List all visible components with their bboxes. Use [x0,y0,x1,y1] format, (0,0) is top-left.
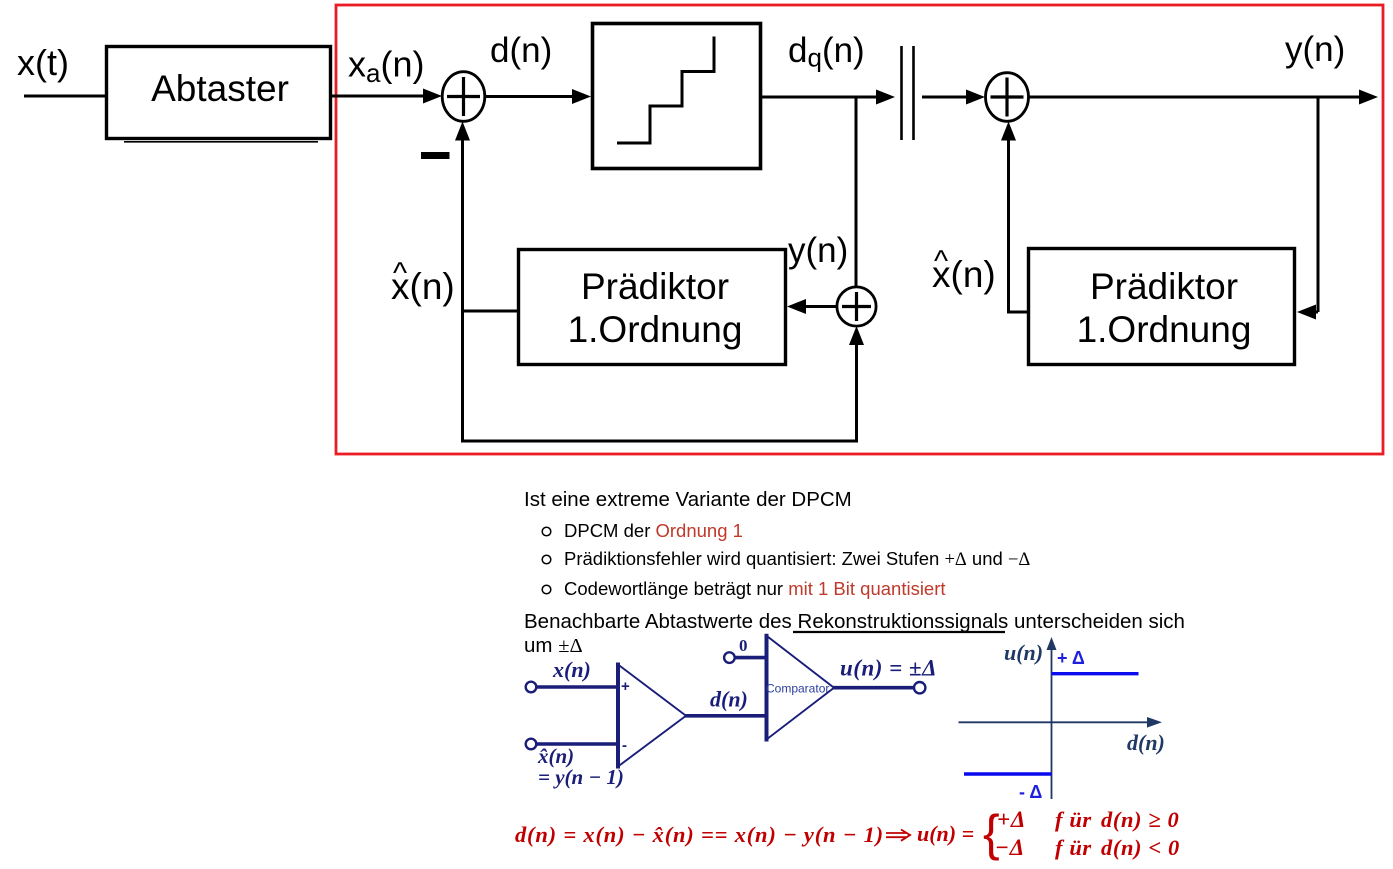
svg-text:Codewortlänge beträgt nur mit: Codewortlänge beträgt nur mit 1 Bit quan… [564,578,946,599]
svg-text:Prädiktor: Prädiktor [581,266,729,307]
graph axis label d(n) [1127,730,1165,755]
svg-text:Ist eine extreme Variante der: Ist eine extreme Variante der DPCM [524,488,852,511]
svg-text:Prädiktionsfehler wird quantis: Prädiktionsfehler wird quantisiert: Zwei… [564,548,1030,570]
wire P2 output to S2 [1001,122,1027,313]
svg-text:d(n): d(n) [1127,730,1165,755]
svg-text:um ±Δ: um ±Δ [524,634,583,657]
node x(n) [552,657,591,682]
graph label -Delta [1019,782,1042,802]
svg-text:d(n): d(n) [490,31,552,70]
svg-text:d(n) ≥ 0: d(n) ≥ 0 [1101,807,1179,832]
svg-text:0: 0 [739,636,748,655]
formula case 2 condition [1055,835,1092,860]
comparator U2 [766,634,834,742]
minus label at S1 [421,152,450,159]
wire zero input [735,656,767,660]
svg-text:y(n): y(n) [788,231,848,270]
block Abtaster (sampler) [107,47,331,142]
formula u(n) equals [917,821,974,846]
formula case 2 condition rhs [1101,835,1180,860]
wire S1 to quantizer [485,89,591,104]
wire x(n) input [537,685,619,689]
svg-text:f ür: f ür [1055,807,1092,832]
formula brace [983,805,1000,861]
node xa(n) [348,44,424,89]
node x(t) [17,42,69,83]
paragraph line 2 [524,634,583,657]
terminal B [526,739,537,750]
svg-text:= y(n − 1): = y(n − 1) [538,765,624,789]
graph x-axis d(n) [959,717,1163,728]
svg-text:1.Ordnung: 1.Ordnung [1077,309,1252,350]
formula case 1 condition [1055,807,1092,832]
formula main [515,822,884,847]
graph label +Delta [1057,648,1085,668]
svg-text:y(n): y(n) [1285,30,1345,69]
bullet 1 marker [542,527,551,536]
bullet 1 text [564,520,743,541]
summer S1 (encoder difference) [442,72,485,122]
graph step -Delta level [964,772,1052,775]
node 0 [739,636,748,655]
svg-text:−Δ: −Δ [995,835,1025,860]
channel marks (double slash) [902,46,914,140]
bullet 2 marker [542,555,551,564]
wire feedback vertical to S1 minus [455,122,470,442]
wire output junction feedback [1317,97,1320,312]
node y(n) encoder [788,231,848,270]
svg-text:d(n) = x(n) − x̂(n) == x(n) −: d(n) = x(n) − x̂(n) == x(n) − y(n − 1) [515,822,884,847]
node u(n) = pm Delta [840,656,937,681]
wire Abtaster to summer S1 [330,89,442,104]
underline of Rekonstruktionssignals [793,631,1005,633]
heading line 1 [524,488,852,511]
svg-text:d(n) < 0: d(n) < 0 [1101,835,1180,860]
node dq(n) [788,31,865,73]
wire d(n) [685,714,767,718]
svg-text:^: ^ [934,245,948,278]
wire xhat(n) input [537,742,619,746]
terminal D [914,682,925,693]
svg-text:Comparator: Comparator [766,682,829,696]
svg-text:- Δ: - Δ [1019,782,1042,802]
node y(n-1) [538,765,624,789]
svg-text:xa(n): xa(n) [348,44,424,89]
wire input to Abtaster [24,95,105,98]
svg-text:u(n) = ±Δ: u(n) = ±Δ [840,656,937,681]
graph axis label u(n) [1004,640,1043,665]
wire feedback bottom [461,440,858,443]
op-amp U1 difference [618,663,686,769]
svg-text:1.Ordnung: 1.Ordnung [568,309,743,350]
wire P1 output to node [463,310,519,313]
svg-text:u(n) =: u(n) = [917,821,974,846]
bullet 3 marker [542,585,551,594]
block predictor P2 [1029,249,1295,365]
wire channel to summer S2 [922,90,985,105]
svg-text:x(t): x(t) [17,42,69,83]
formula case 1 condition rhs [1101,807,1179,832]
svg-text:Benachbarte Abtastwerte des Re: Benachbarte Abtastwerte des Rekonstrukti… [524,610,1185,633]
svg-text:+: + [621,678,630,695]
node y(n) output [1285,30,1345,69]
graph step +Delta level [1052,672,1139,675]
formula implies arrow [886,830,910,841]
node d(n) [710,687,748,712]
svg-text:u(n): u(n) [1004,640,1043,665]
node d(n) [490,31,552,70]
graph y-axis u(n) [1047,637,1057,799]
block quantizer Q [593,24,761,169]
wire u(n) output [833,686,914,690]
terminal A [526,682,537,693]
wire feedback to P2 [1297,305,1318,320]
wire quantizer to channel [762,90,895,105]
formula case 2 [995,835,1025,860]
svg-text:-: - [622,737,627,754]
bullet 2 text [564,548,1030,570]
wire S3 to predictor P1 [787,299,837,314]
red frame around DPCM system [336,5,1383,454]
node xhat(n) [537,744,574,768]
wire S2 to output y(n) [1029,90,1379,105]
svg-text:x(n): x(n) [552,657,591,682]
terminal C zero input [724,652,735,663]
svg-text:d(n): d(n) [710,687,748,712]
node dq junction [855,97,858,287]
svg-text:+ Δ: + Δ [1057,648,1085,668]
svg-text:Prädiktor: Prädiktor [1090,266,1238,307]
summer S2 (decoder adder) [986,73,1029,122]
summer S3 (encoder local adder) [837,287,876,326]
svg-text:dq(n): dq(n) [788,31,865,73]
svg-text:DPCM der Ordnung 1: DPCM der Ordnung 1 [564,520,743,541]
block predictor P1 [519,250,786,365]
svg-text:^: ^ [393,257,407,290]
bullet 3 text [564,578,946,599]
svg-text:f ür: f ür [1055,835,1092,860]
formula case 1 [997,807,1026,832]
node xhat(n) decoder [932,245,996,295]
svg-text:Abtaster: Abtaster [151,68,289,109]
paragraph line 1 [524,610,1185,633]
node xhat(n) encoder [391,257,455,307]
svg-text:+Δ: +Δ [997,807,1026,832]
wire bottom to S3 [849,326,864,441]
